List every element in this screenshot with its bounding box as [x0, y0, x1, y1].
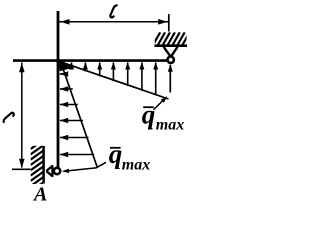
- pin support triangle (support A): [46, 165, 52, 177]
- load arrow on beam x=72: [69, 62, 74, 70]
- node corner junction fillet: [59, 60, 74, 72]
- svg-text:q: q: [109, 139, 123, 169]
- svg-text:q: q: [142, 99, 156, 129]
- dimension line l (top): [58, 21, 168, 23]
- label l (left span, rotated): [2, 112, 15, 122]
- load arrow on beam x=85: [83, 62, 88, 71]
- leader arrow to q_max (beam): [154, 96, 168, 110]
- dimension arrow left (top): [60, 19, 70, 25]
- pin circle A (bottom hinge): [54, 168, 60, 174]
- pin circle (top-right hinge): [168, 57, 174, 63]
- dimension arrow right (top): [158, 19, 168, 25]
- load arrow on column y=89: [60, 86, 73, 91]
- pin support triangle (top-right): [164, 47, 178, 56]
- load arrow on beam x=142: [139, 62, 144, 91]
- dimension tick bottom (left): [12, 168, 31, 170]
- svg-text:max: max: [156, 117, 184, 134]
- load arrow on column y=74: [60, 71, 68, 76]
- label l (top span): [110, 5, 116, 17]
- dimension arrow up (left): [19, 63, 25, 73]
- svg-text:A: A: [32, 184, 47, 206]
- hatched wall (support A): [31, 140, 43, 191]
- label q_max (beam load): [142, 99, 184, 133]
- load arrow on beam x=100: [97, 62, 102, 76]
- wire beam (horizontal member): [13, 59, 167, 62]
- load arrow on column y=138: [60, 135, 89, 140]
- label q_max (column load): [109, 139, 150, 173]
- load envelope hypotenuse (column, q triangle): [61, 62, 98, 167]
- dimension arrow down (left): [19, 159, 25, 169]
- load arrow on beam x=113: [111, 62, 116, 81]
- load arrow on beam at pin (max): [168, 64, 173, 92]
- wall line (support A): [42, 146, 45, 184]
- dimension tick right (top): [168, 14, 170, 32]
- load arrow on column y=120: [60, 118, 83, 123]
- load arrow on beam x=156: [153, 62, 158, 95]
- leader arrow to q_max (column, at pin A): [62, 162, 106, 173]
- hatched ground (top-right support): [153, 32, 190, 45]
- ground line (top-right support): [155, 44, 188, 47]
- load arrow on column y=154: [60, 152, 94, 157]
- load arrow on beam x=128: [125, 62, 130, 86]
- load envelope hypotenuse (beam, q triangle): [61, 62, 169, 99]
- svg-text:max: max: [122, 157, 150, 174]
- load arrow on column y=104: [60, 102, 78, 107]
- wire column (vertical member): [57, 11, 60, 168]
- dimension line l (left): [21, 63, 23, 168]
